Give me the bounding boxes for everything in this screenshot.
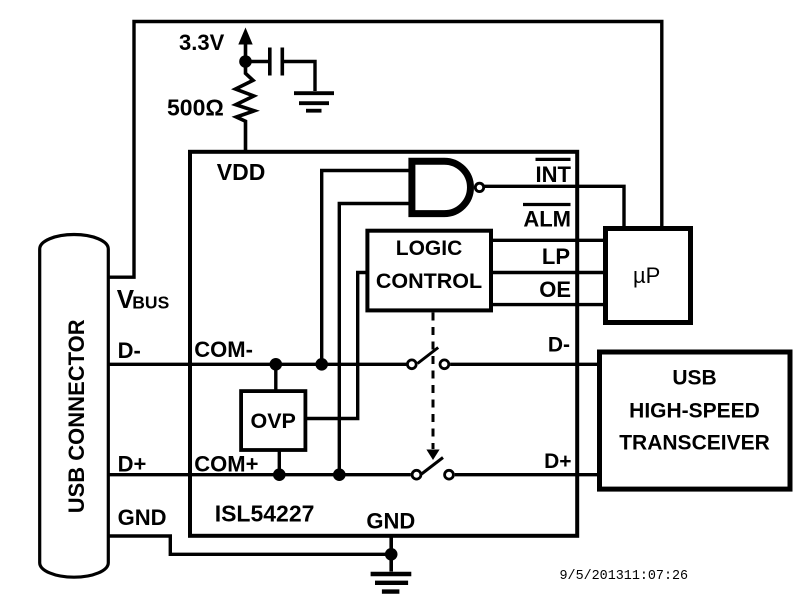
resistor R1 500 ohm — [236, 62, 255, 153]
svg-text:HIGH-SPEED: HIGH-SPEED — [629, 400, 760, 423]
wire NAND input 2 from COM+ node — [339, 204, 411, 475]
svg-text:D+: D+ — [118, 452, 147, 477]
svg-text:9/5/201311:07:26: 9/5/201311:07:26 — [560, 569, 689, 584]
node: 3.3V junction dot — [239, 55, 252, 68]
wire NAND output INT to uP top — [485, 186, 625, 229]
wire OVP to LOGIC CONTROL — [307, 273, 366, 419]
LOGIC CONTROL block — [367, 231, 491, 311]
svg-text:INT: INT — [536, 162, 572, 187]
svg-text:ISL54227: ISL54227 — [215, 501, 315, 527]
3.3V supply arrow — [238, 28, 252, 63]
svg-text:USB CONNECTOR: USB CONNECTOR — [64, 319, 89, 513]
svg-text:LP: LP — [542, 244, 570, 269]
OVP block — [241, 391, 305, 450]
node dot OVP/COM- — [270, 358, 283, 371]
wire LP from logic control to uP — [493, 271, 603, 274]
NAND output bubble — [475, 183, 483, 191]
ground symbol (bottom) — [371, 574, 412, 592]
svg-text:TRANSCEIVER: TRANSCEIVER — [619, 432, 770, 455]
USB connector body — [40, 235, 109, 578]
svg-text:OVP: OVP — [250, 409, 295, 433]
svg-text:OE: OE — [539, 277, 571, 302]
node dot OVP/COM+ — [273, 468, 286, 481]
wire NAND input 1 from COM- node — [322, 171, 411, 365]
USB high-speed transceiver box — [600, 352, 791, 489]
svg-text:D-: D- — [548, 334, 570, 357]
svg-text:BUS: BUS — [132, 292, 169, 312]
svg-text:COM+: COM+ — [194, 452, 258, 477]
svg-text:500Ω: 500Ω — [167, 95, 224, 121]
svg-text:GND: GND — [366, 508, 415, 533]
wire D+ from connector through COM+ to switch — [108, 473, 411, 476]
node dot COM- / NAND input 1 — [315, 358, 328, 371]
svg-text:VDD: VDD — [217, 159, 266, 185]
wire junction to capacitor — [246, 60, 269, 63]
svg-text:GND: GND — [118, 505, 167, 530]
svg-text:CONTROL: CONTROL — [376, 269, 482, 293]
wire D- from connector through COM- to switch — [108, 363, 407, 366]
wire GND from connector to ground node — [108, 536, 391, 554]
svg-text:D+: D+ — [544, 450, 571, 473]
wire D+ from switch to transceiver — [455, 473, 599, 476]
label INT with overline — [536, 159, 572, 187]
wire IC GND pin down to ground — [389, 537, 393, 572]
wire VBUS loop: USB connector to 3.3V rail across top to uP supply — [108, 22, 662, 278]
wire D- from switch to transceiver — [450, 363, 599, 366]
NAND gate U1 — [412, 161, 471, 213]
node dot COM+ / NAND input 2 — [333, 468, 346, 481]
wire capacitor to ground — [284, 62, 315, 92]
wire ALM from logic control to uP — [493, 239, 603, 242]
svg-text:ALM: ALM — [523, 207, 571, 232]
svg-text:µP: µP — [633, 263, 660, 288]
wire OE from logic control to uP — [493, 303, 603, 306]
svg-text:3.3V: 3.3V — [179, 30, 225, 55]
svg-text:LOGIC: LOGIC — [396, 237, 463, 260]
wire OVP input from COM- — [274, 364, 277, 391]
label ALM with overline — [523, 205, 571, 232]
dashed control line from LOGIC CONTROL to switch — [426, 313, 439, 461]
IC ISL54227 outline box — [190, 152, 577, 536]
node dot GND junction — [385, 548, 398, 561]
capacitor C1 (bypass) — [270, 48, 283, 76]
switch SW2 (D+ path) — [412, 458, 453, 480]
label VBUS — [117, 284, 169, 314]
wire OVP output to COM+ — [278, 450, 281, 475]
switch SW1 (D- path) — [407, 348, 448, 369]
ground symbol (top, at capacitor) — [294, 93, 334, 111]
microprocessor uP box — [606, 229, 691, 323]
svg-text:USB: USB — [672, 367, 716, 390]
svg-text:D-: D- — [118, 338, 141, 363]
svg-text:COM-: COM- — [194, 337, 253, 362]
